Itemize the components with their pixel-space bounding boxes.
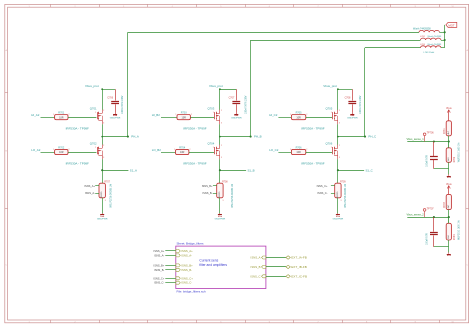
transistor Q705 <box>301 106 340 130</box>
svg-text:IRF530A - TP99F: IRF530A - TP99F <box>66 126 89 130</box>
capacitor C762 <box>426 217 437 247</box>
hierarchical label EXT_IA-FB <box>251 256 307 260</box>
node PH_A <box>101 135 139 139</box>
svg-text:100nF/X7R/100V: 100nF/X7R/100V <box>245 95 248 114</box>
junction <box>444 39 446 41</box>
resistor R702 <box>53 146 69 154</box>
svg-text:A: A <box>466 49 468 52</box>
svg-text:R762: R762 <box>454 156 456 162</box>
svg-text:Vbus: Vbus <box>446 183 452 186</box>
ground <box>231 113 242 120</box>
svg-text:1: 1 <box>331 112 332 114</box>
svg-text:TP706: TP706 <box>427 132 435 135</box>
wire <box>337 137 339 145</box>
svg-text:R764: R764 <box>454 234 456 240</box>
svg-text:ISNS_A+: ISNS_A+ <box>154 249 165 253</box>
sheet pin ISNS_B+ <box>154 263 194 267</box>
svg-text:1: 1 <box>213 147 214 149</box>
svg-text:R704: R704 <box>179 146 186 149</box>
svg-text:Vbus_prot: Vbus_prot <box>209 84 223 88</box>
sheet pin ISNS_C- <box>154 281 192 285</box>
node PH_B <box>219 135 262 139</box>
svg-text:ISNS_B-: ISNS_B- <box>154 268 164 272</box>
junction <box>444 31 446 33</box>
capacitor C761 <box>426 142 437 169</box>
svg-text:ISNS_B-: ISNS_B- <box>181 268 192 272</box>
svg-text:1: 1 <box>95 147 96 149</box>
svg-text:ISNS_C-: ISNS_C- <box>154 281 164 285</box>
svg-text:R705: R705 <box>296 112 303 115</box>
svg-text:100nF/X7R: 100nF/X7R <box>426 233 428 245</box>
wire <box>68 117 96 119</box>
wire <box>364 48 366 137</box>
resistor R708 current shunt <box>213 181 234 207</box>
svg-text:GND/PWR: GND/PWR <box>215 218 226 220</box>
wire <box>190 117 214 119</box>
node Vbus_prot phase B <box>209 84 236 90</box>
wire <box>441 40 445 42</box>
capacitor C708 <box>345 89 362 114</box>
svg-text:EXT_IA-FB: EXT_IA-FB <box>291 256 307 260</box>
power flag Vbus block 1 <box>446 107 452 121</box>
resistor R709 current shunt <box>331 181 347 207</box>
node PH_C <box>337 135 376 139</box>
wire <box>448 240 450 247</box>
svg-text:GND/PWR: GND/PWR <box>97 218 108 220</box>
global label MOT <box>446 22 457 27</box>
wire <box>102 159 104 183</box>
svg-text:3: 3 <box>341 200 342 202</box>
svg-text:10R: 10R <box>182 116 187 119</box>
svg-text:Q703: Q703 <box>207 106 214 110</box>
svg-text:Q705: Q705 <box>325 106 332 110</box>
sheet pin ISNS_B- <box>154 268 192 272</box>
svg-text:10R: 10R <box>59 151 64 154</box>
svg-text:3: 3 <box>223 200 224 202</box>
wire <box>219 159 221 183</box>
ground <box>447 174 451 177</box>
resistor R764 <box>446 220 460 240</box>
wire <box>219 124 221 136</box>
wire <box>448 247 450 253</box>
wire <box>189 152 214 154</box>
svg-text:HI_A2: HI_A2 <box>31 113 39 117</box>
svg-text:1: 1 <box>331 147 332 149</box>
svg-text:2: 2 <box>306 149 307 151</box>
resistor R701 <box>53 112 69 120</box>
wire <box>219 137 221 145</box>
wire <box>448 162 450 169</box>
svg-text:2: 2 <box>103 110 104 112</box>
svg-text:ISNS_A: ISNS_A <box>251 256 261 260</box>
ground <box>333 213 344 220</box>
svg-text:ISNS_B+: ISNS_B+ <box>181 263 193 267</box>
svg-text:ISNS_B: ISNS_B <box>251 265 261 269</box>
svg-text:HI_C2: HI_C2 <box>269 113 278 117</box>
svg-text:ISNS_A+: ISNS_A+ <box>84 184 95 188</box>
node Vbus_prot phase A <box>85 84 115 90</box>
resistor R706 <box>290 146 307 154</box>
svg-text:GND/PWR: GND/PWR <box>231 118 242 120</box>
ground <box>347 113 358 120</box>
svg-text:MOT: MOT <box>448 24 455 28</box>
node Vbus_sense_1 <box>407 137 450 143</box>
wire <box>128 32 419 34</box>
svg-text:Wurth 744393: Wurth 744393 <box>428 35 442 38</box>
svg-text:R703: R703 <box>181 112 188 115</box>
svg-text:3: 3 <box>339 157 340 159</box>
node LO_B <box>152 148 176 153</box>
node HI_A <box>31 113 54 117</box>
resistor R705 <box>290 112 307 120</box>
transistor Q701 <box>66 106 105 130</box>
sheet description text <box>199 258 227 266</box>
hierarchical label EXT_IC-FB <box>250 274 307 278</box>
sheet Current sense filter block <box>176 246 266 288</box>
svg-text:3: 3 <box>103 157 104 159</box>
svg-text:ISNS_A-: ISNS_A- <box>154 253 164 257</box>
svg-text:B: B <box>5 151 7 153</box>
svg-text:ISNS_A+: ISNS_A+ <box>181 249 193 253</box>
svg-text:2: 2 <box>221 110 222 112</box>
svg-text:3: 3 <box>221 122 222 124</box>
testpoint TP707 <box>423 207 434 217</box>
node ISNS_C <box>317 184 328 195</box>
svg-text:R701: R701 <box>58 112 65 115</box>
svg-text:File: bridge_filters.sch: File: bridge_filters.sch <box>177 290 207 294</box>
svg-text:Wurth 74439358: Wurth 74439358 <box>413 27 431 30</box>
svg-text:3: 3 <box>339 122 340 124</box>
svg-text:1: 1 <box>176 114 177 116</box>
svg-text:PH_A: PH_A <box>131 135 139 139</box>
svg-text:Sheet: Bridge_filters: Sheet: Bridge_filters <box>177 242 205 246</box>
wire <box>441 47 445 49</box>
sheet file <box>177 290 207 294</box>
svg-text:TP707: TP707 <box>427 207 435 210</box>
svg-text:R706: R706 <box>296 146 303 149</box>
svg-text:1: 1 <box>53 149 54 151</box>
svg-text:GND/PWR: GND/PWR <box>110 118 121 120</box>
svg-text:A: A <box>5 49 7 52</box>
resistor R704 <box>174 146 190 154</box>
svg-text:0R005: 0R005 <box>219 191 221 198</box>
wire <box>127 32 129 136</box>
svg-text:C706: C706 <box>107 97 113 100</box>
resistor R762 <box>446 143 460 163</box>
wire <box>102 137 104 145</box>
svg-text:2: 2 <box>339 145 340 147</box>
svg-text:S1_C: S1_C <box>366 168 373 172</box>
svg-text:C707: C707 <box>229 97 235 100</box>
ground <box>97 213 108 220</box>
sheet pin ISNS_C+ <box>153 276 193 280</box>
svg-text:1: 1 <box>290 149 291 151</box>
svg-text:C: C <box>5 265 7 267</box>
svg-text:B: B <box>466 151 468 153</box>
svg-text:100nF/X7R: 100nF/X7R <box>426 155 428 167</box>
svg-text:GND/PWR: GND/PWR <box>333 218 344 220</box>
svg-text:R707: R707 <box>104 181 110 183</box>
svg-text:1: 1 <box>53 114 54 116</box>
node HI_B <box>152 113 177 117</box>
resistor R761 <box>444 121 451 136</box>
svg-text:ISNS_C+: ISNS_C+ <box>181 276 193 280</box>
resistor R763 <box>444 194 451 209</box>
inductor L702 <box>420 35 442 40</box>
capacitor C706 <box>107 89 124 114</box>
ground <box>215 213 226 220</box>
svg-text:LO_B2: LO_B2 <box>152 148 161 152</box>
svg-text:PH_C: PH_C <box>368 135 376 139</box>
svg-text:2: 2 <box>339 110 340 112</box>
node HI_C <box>269 113 291 117</box>
wire <box>337 89 339 110</box>
svg-text:R763: R763 <box>444 201 446 207</box>
node Vbus_prot phase C <box>323 84 352 90</box>
transistor Q702 <box>66 141 105 165</box>
svg-text:10R: 10R <box>296 116 301 119</box>
wire <box>68 152 96 154</box>
svg-text:1: 1 <box>290 114 291 116</box>
svg-text:Q704: Q704 <box>207 141 214 145</box>
svg-text:IRF530A - TP99F: IRF530A - TP99F <box>301 162 324 166</box>
svg-text:GND/PWR: GND/PWR <box>347 118 358 120</box>
inductor L703 <box>420 43 442 54</box>
wire <box>306 117 332 119</box>
svg-text:ISNS_B+: ISNS_B+ <box>154 263 165 267</box>
svg-text:S1_B: S1_B <box>248 168 255 172</box>
svg-text:HI_B2: HI_B2 <box>152 113 160 117</box>
wire <box>219 198 221 214</box>
svg-text:Wurth 744393: Wurth 744393 <box>428 43 442 46</box>
node ISNS_A <box>84 184 95 195</box>
svg-text:ISNS_C-: ISNS_C- <box>181 281 192 285</box>
svg-text:3: 3 <box>221 157 222 159</box>
svg-text:10R: 10R <box>296 151 301 154</box>
svg-text:IRF530A - TP99F: IRF530A - TP99F <box>301 126 324 130</box>
wire <box>434 168 449 170</box>
node S1_C <box>337 168 373 172</box>
wire <box>448 169 450 175</box>
svg-text:Vbus_sense_2: Vbus_sense_2 <box>407 213 425 217</box>
svg-text:S1_A: S1_A <box>130 168 137 172</box>
node S1_B <box>219 168 255 172</box>
node LO_C <box>269 148 291 153</box>
svg-text:C708: C708 <box>345 97 351 100</box>
svg-text:EXT_IC-FB: EXT_IC-FB <box>291 274 307 278</box>
sheet pin ISNS_A+ <box>154 249 194 253</box>
svg-text:WSLP2726 0R005 1%: WSLP2726 0R005 1% <box>344 183 347 208</box>
wire <box>439 32 444 34</box>
svg-text:L703: L703 <box>420 44 426 46</box>
wire <box>337 159 339 183</box>
wire <box>434 246 449 248</box>
svg-text:3: 3 <box>103 122 104 124</box>
capacitor C707 <box>229 89 248 114</box>
svg-text:C: C <box>466 265 468 267</box>
svg-text:Vbus_prot: Vbus_prot <box>85 84 99 88</box>
transistor Q704 <box>183 141 222 165</box>
svg-text:LO_A2: LO_A2 <box>31 148 40 152</box>
svg-text:ISNS_A-: ISNS_A- <box>85 191 95 195</box>
node Vbus_sense_2 <box>407 213 450 219</box>
transistor Q703 <box>183 106 222 130</box>
svg-text:Current sens: Current sens <box>199 258 218 262</box>
svg-text:100nF/X7R/100V: 100nF/X7R/100V <box>359 95 362 114</box>
svg-text:10R: 10R <box>180 151 185 154</box>
svg-text:2: 2 <box>191 114 192 116</box>
svg-text:2: 2 <box>103 145 104 147</box>
svg-text:ISNS_C-: ISNS_C- <box>317 191 327 195</box>
svg-text:Vbus_prot: Vbus_prot <box>323 84 337 88</box>
resistor R707 current shunt <box>95 181 112 207</box>
svg-text:2: 2 <box>69 114 70 116</box>
svg-text:ISNS_A-: ISNS_A- <box>181 253 192 257</box>
svg-text:Vbus: Vbus <box>446 107 452 110</box>
wire <box>444 25 446 48</box>
svg-text:ISNS_B-: ISNS_B- <box>202 191 212 195</box>
svg-text:ISNS_B+: ISNS_B+ <box>202 184 213 188</box>
node LO_A <box>31 148 54 153</box>
svg-text:R709: R709 <box>340 181 346 183</box>
wire <box>448 136 450 142</box>
svg-text:Q706: Q706 <box>325 141 332 145</box>
testpoint TP706 <box>423 132 434 142</box>
svg-text:R761: R761 <box>444 128 446 134</box>
svg-text:WSLP2726 0R005 1%: WSLP2726 0R005 1% <box>110 183 113 208</box>
wire <box>219 89 221 110</box>
wire <box>102 124 104 136</box>
wire <box>250 40 252 137</box>
wire <box>448 142 450 148</box>
svg-text:IRF530A - TP99F: IRF530A - TP99F <box>183 126 206 130</box>
svg-text:0R005: 0R005 <box>101 191 103 198</box>
svg-text:2: 2 <box>306 114 307 116</box>
wire <box>306 152 332 154</box>
sheet pin ISNS_A- <box>154 253 192 257</box>
resistor R703 <box>176 112 192 120</box>
svg-text:WLP2010 1k00 1%: WLP2010 1k00 1% <box>458 143 460 163</box>
wire <box>102 198 104 214</box>
wire <box>102 89 104 110</box>
svg-text:R708: R708 <box>222 181 228 183</box>
svg-text:ISNS_C: ISNS_C <box>250 274 260 278</box>
svg-text:10R: 10R <box>59 116 64 119</box>
svg-text:100nF/X7R/100V: 100nF/X7R/100V <box>121 95 124 114</box>
wire <box>337 198 339 214</box>
svg-text:L703 15uH: L703 15uH <box>424 52 435 54</box>
svg-text:2: 2 <box>189 149 190 151</box>
svg-text:Q701: Q701 <box>90 106 97 110</box>
svg-text:2: 2 <box>69 149 70 151</box>
svg-text:IRF530A - TP99F: IRF530A - TP99F <box>66 162 89 166</box>
svg-text:3: 3 <box>105 200 106 202</box>
node S1_A <box>101 168 137 172</box>
svg-text:0R005: 0R005 <box>337 191 339 198</box>
svg-text:R702: R702 <box>58 146 65 149</box>
svg-text:EXT_IB-FB: EXT_IB-FB <box>291 265 307 269</box>
svg-text:1: 1 <box>213 112 214 114</box>
wire <box>251 40 421 42</box>
svg-text:L702: L702 <box>420 36 426 38</box>
ground <box>110 113 121 120</box>
power flag Vbus block 2 <box>446 183 452 195</box>
svg-text:1: 1 <box>95 112 96 114</box>
svg-text:filter and amplifiers: filter and amplifiers <box>199 263 227 267</box>
wire <box>365 47 421 49</box>
svg-text:ISNS_C+: ISNS_C+ <box>153 276 164 280</box>
svg-text:WSLP2726 0R005 1%: WSLP2726 0R005 1% <box>231 183 234 208</box>
ground <box>447 252 451 255</box>
hierarchical label EXT_IB-FB <box>251 265 307 269</box>
node ISNS_B <box>202 184 213 195</box>
transistor Q706 <box>301 141 340 165</box>
svg-text:LO_C2: LO_C2 <box>269 148 279 152</box>
wire <box>337 124 339 136</box>
inductor L701 <box>413 27 439 32</box>
svg-text:1: 1 <box>174 149 175 151</box>
wire <box>448 210 450 218</box>
svg-text:Vbus_sense_1: Vbus_sense_1 <box>407 137 425 141</box>
svg-text:WLP2010 1k00 1%: WLP2010 1k00 1% <box>458 220 460 240</box>
sheet name <box>177 242 205 246</box>
svg-text:PH_B: PH_B <box>254 135 262 139</box>
svg-text:IRF530A - TP99F: IRF530A - TP99F <box>183 162 206 166</box>
svg-text:2: 2 <box>221 145 222 147</box>
wire <box>448 217 450 223</box>
svg-text:Q702: Q702 <box>90 141 97 145</box>
svg-text:ISNS_C+: ISNS_C+ <box>317 184 328 188</box>
